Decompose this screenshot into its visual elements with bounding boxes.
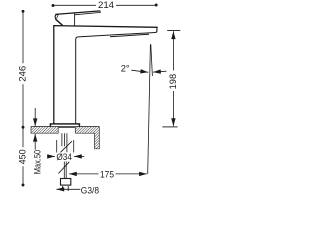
hose stub left bbox=[62, 186, 64, 191]
svg-text:450: 450 bbox=[16, 149, 27, 164]
G3/8 connector box bbox=[61, 179, 71, 186]
dimension 175 line left arrow bbox=[69, 173, 99, 175]
handle left curl bbox=[55, 14, 58, 19]
base flange bbox=[50, 124, 79, 127]
thread break diagonal upper bbox=[61, 141, 72, 152]
O34 extension line right bbox=[73, 140, 75, 153]
dimension 198 top tick bbox=[167, 30, 180, 32]
spout end cap right edge bbox=[155, 27, 157, 32]
svg-text:198: 198 bbox=[167, 74, 178, 90]
spout underside inner line bbox=[76, 33, 156, 124]
handle cartridge vertical bbox=[74, 12, 76, 25]
dimension Max.50 upper arrow bbox=[34, 108, 36, 126]
dimension 198 line upper arrow bbox=[172, 31, 174, 70]
shank line mid bbox=[63, 133, 65, 146]
dimension 214 line bbox=[53, 4, 157, 6]
dimension 2deg leader arrow bbox=[131, 70, 148, 72]
O34 extension line left bbox=[56, 140, 58, 153]
counter hatched section right L-shape bbox=[75, 127, 99, 149]
thread break diagonal lower bbox=[58, 162, 69, 174]
dimension 246 end dots bbox=[22, 10, 25, 13]
counter top surface right bbox=[80, 126, 100, 128]
water stream line left bbox=[148, 44, 151, 174]
dimension 175 line right arrow bbox=[116, 173, 147, 175]
spout underside outer thick line bbox=[110, 34, 149, 36]
G3/8 leader bbox=[56, 188, 80, 190]
handle inner bevel bbox=[57, 15, 59, 19]
dimension 198 line lower arrow bbox=[172, 91, 174, 126]
shank line right bbox=[66, 133, 68, 152]
hose line right below label bbox=[65, 162, 67, 179]
svg-text:2°: 2° bbox=[121, 63, 130, 74]
dimension Max.50 lower arrow bbox=[34, 134, 36, 150]
faucet body outline top and left bbox=[54, 26, 158, 124]
svg-text:214: 214 bbox=[98, 0, 114, 10]
dimension 450 end dot bbox=[22, 184, 25, 187]
hose line left below label bbox=[63, 162, 65, 179]
counter hatched section left bbox=[31, 127, 58, 134]
svg-text:G3/8: G3/8 bbox=[81, 184, 99, 195]
svg-text:Max.50: Max.50 bbox=[32, 150, 43, 175]
handle lever right end and underside bbox=[75, 11, 101, 15]
counter top surface left bbox=[31, 126, 50, 128]
handle lever top edge bbox=[55, 11, 100, 15]
svg-text:246: 246 bbox=[16, 66, 27, 82]
water stream line right bbox=[151, 44, 153, 76]
dimension 214 end dots bbox=[52, 4, 55, 7]
dimension 198 bottom tick bbox=[162, 126, 177, 128]
svg-text:175: 175 bbox=[100, 168, 114, 179]
shank line left bbox=[61, 133, 63, 146]
dimension O34 right arrow bbox=[74, 155, 84, 157]
dimension O34 left arrow bbox=[49, 155, 55, 157]
hose stub right bbox=[67, 186, 69, 191]
handle front wedge bbox=[56, 19, 63, 25]
dimension 246 and 450 shared line bbox=[22, 11, 24, 185]
svg-text:Ø34: Ø34 bbox=[56, 152, 72, 163]
dimension 2deg opposing arrow bbox=[153, 70, 167, 73]
